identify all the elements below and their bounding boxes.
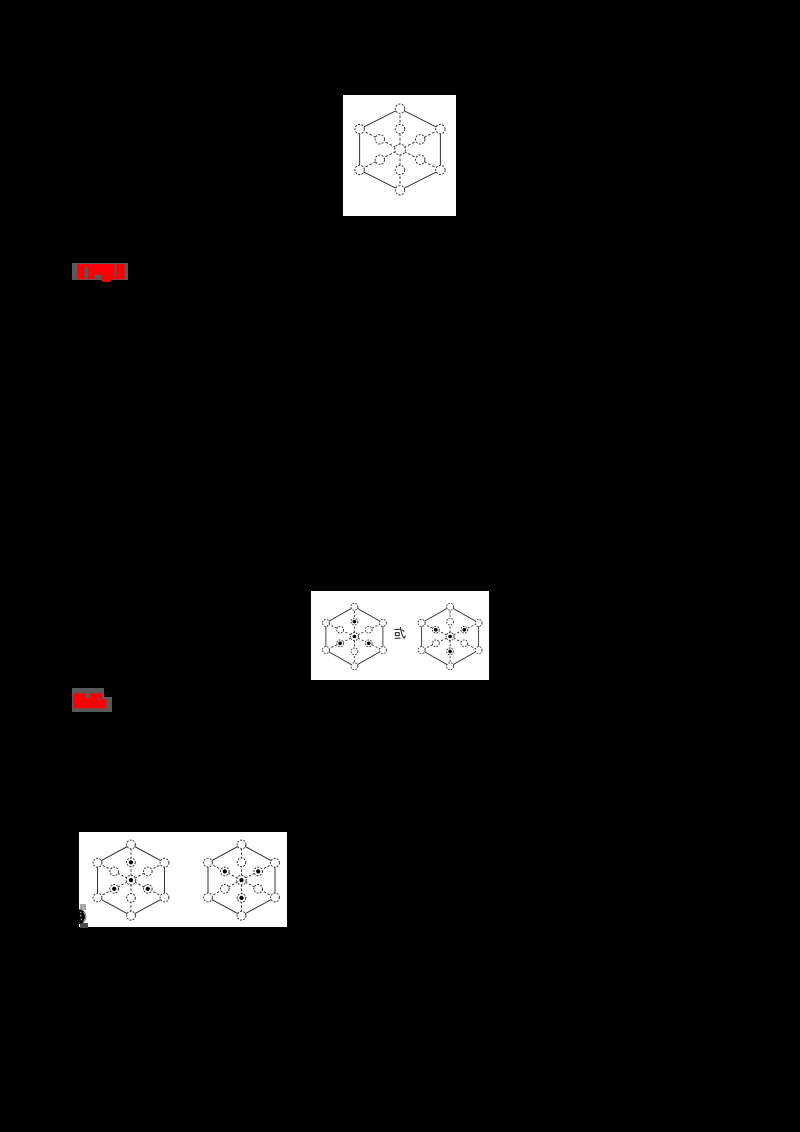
circled list-number glyph (half visible, clipped at box edge) [79,905,89,929]
fig3-right spoke to LL [208,880,242,897]
fig1 midpoint nodes [375,124,425,174]
red caption 1 text blob [72,258,132,288]
glyph "or" between figures [395,627,406,638]
fig1 spoke to LL [360,150,400,170]
fig1 hexagon outline [360,109,441,191]
fig2-right spoke to LR [450,637,479,651]
figure box 3 [79,832,287,927]
fig1 vertex nodes [355,104,445,195]
fig3-right spoke to UR [242,863,276,880]
fig2-right center node [446,633,454,641]
fig3-left vertex nodes [93,840,169,920]
highlighted red caption 1 [72,263,128,280]
fig3-right hexagon outline [208,845,275,916]
fig2-left hexagon outline [326,607,383,667]
fig3-right midpoint nodes [221,858,263,902]
fig1 spoke to UR [400,129,440,149]
fig3-right spoke to UL [208,863,242,880]
fig2-right spoke to UR [450,623,479,637]
fig2-right vertex nodes [418,603,482,670]
fig2-left center node [350,633,358,641]
fig3-left midpoint nodes [110,858,152,902]
fig3-left spoke to T [130,845,132,881]
fig3-left spoke to LR [131,880,165,897]
fig1 spoke to UL [360,129,400,149]
fig3-left spoke to B [130,880,132,916]
fig2-left spoke to UR [354,623,383,637]
fig1 spoke to B [399,150,401,191]
fig2-left vertex nodes [322,603,386,670]
fig2-left spoke to LR [354,637,383,651]
figure box 2 [311,591,489,680]
fig1 spoke to LR [400,150,440,170]
fig2-left midpoint nodes [337,618,372,655]
highlighted red caption 2 background (two-line selection) [72,688,104,697]
red caption 2 text blob [70,688,115,714]
circled list-number glyph: lower dark-gray selection block [80,923,88,928]
fig1 spoke to T [399,109,401,150]
fig3-left spoke to UL [98,863,132,880]
figure box 1 [343,95,456,216]
fig3-right spoke to B [241,880,243,916]
fig2-left spoke to UL [326,623,355,637]
circled list-number glyph at box edge: upper light-gray selection block [80,904,85,910]
fig2-right spoke to T [449,607,451,637]
fig3-right vertex nodes [204,840,280,920]
fig2-left spoke to T [353,607,355,637]
fig2-left spoke to B [353,637,355,667]
fig3-left spoke to LL [98,880,132,897]
fig2-right spoke to UL [422,623,451,637]
fig3-right spoke to LR [242,880,276,897]
fig2-left spoke to LL [326,637,355,651]
fig2-right spoke to LL [422,637,451,651]
fig3-left center node [127,875,137,885]
fig3-right center node [237,875,247,885]
fig3-left spoke to UR [131,863,165,880]
fig3-left hexagon outline [98,845,165,916]
fig1 center node [395,144,406,155]
fig3-right spoke to T [241,845,243,881]
fig2-right hexagon outline [422,607,479,667]
fig2-right spoke to B [449,637,451,667]
fig2-right midpoint nodes [432,618,467,655]
